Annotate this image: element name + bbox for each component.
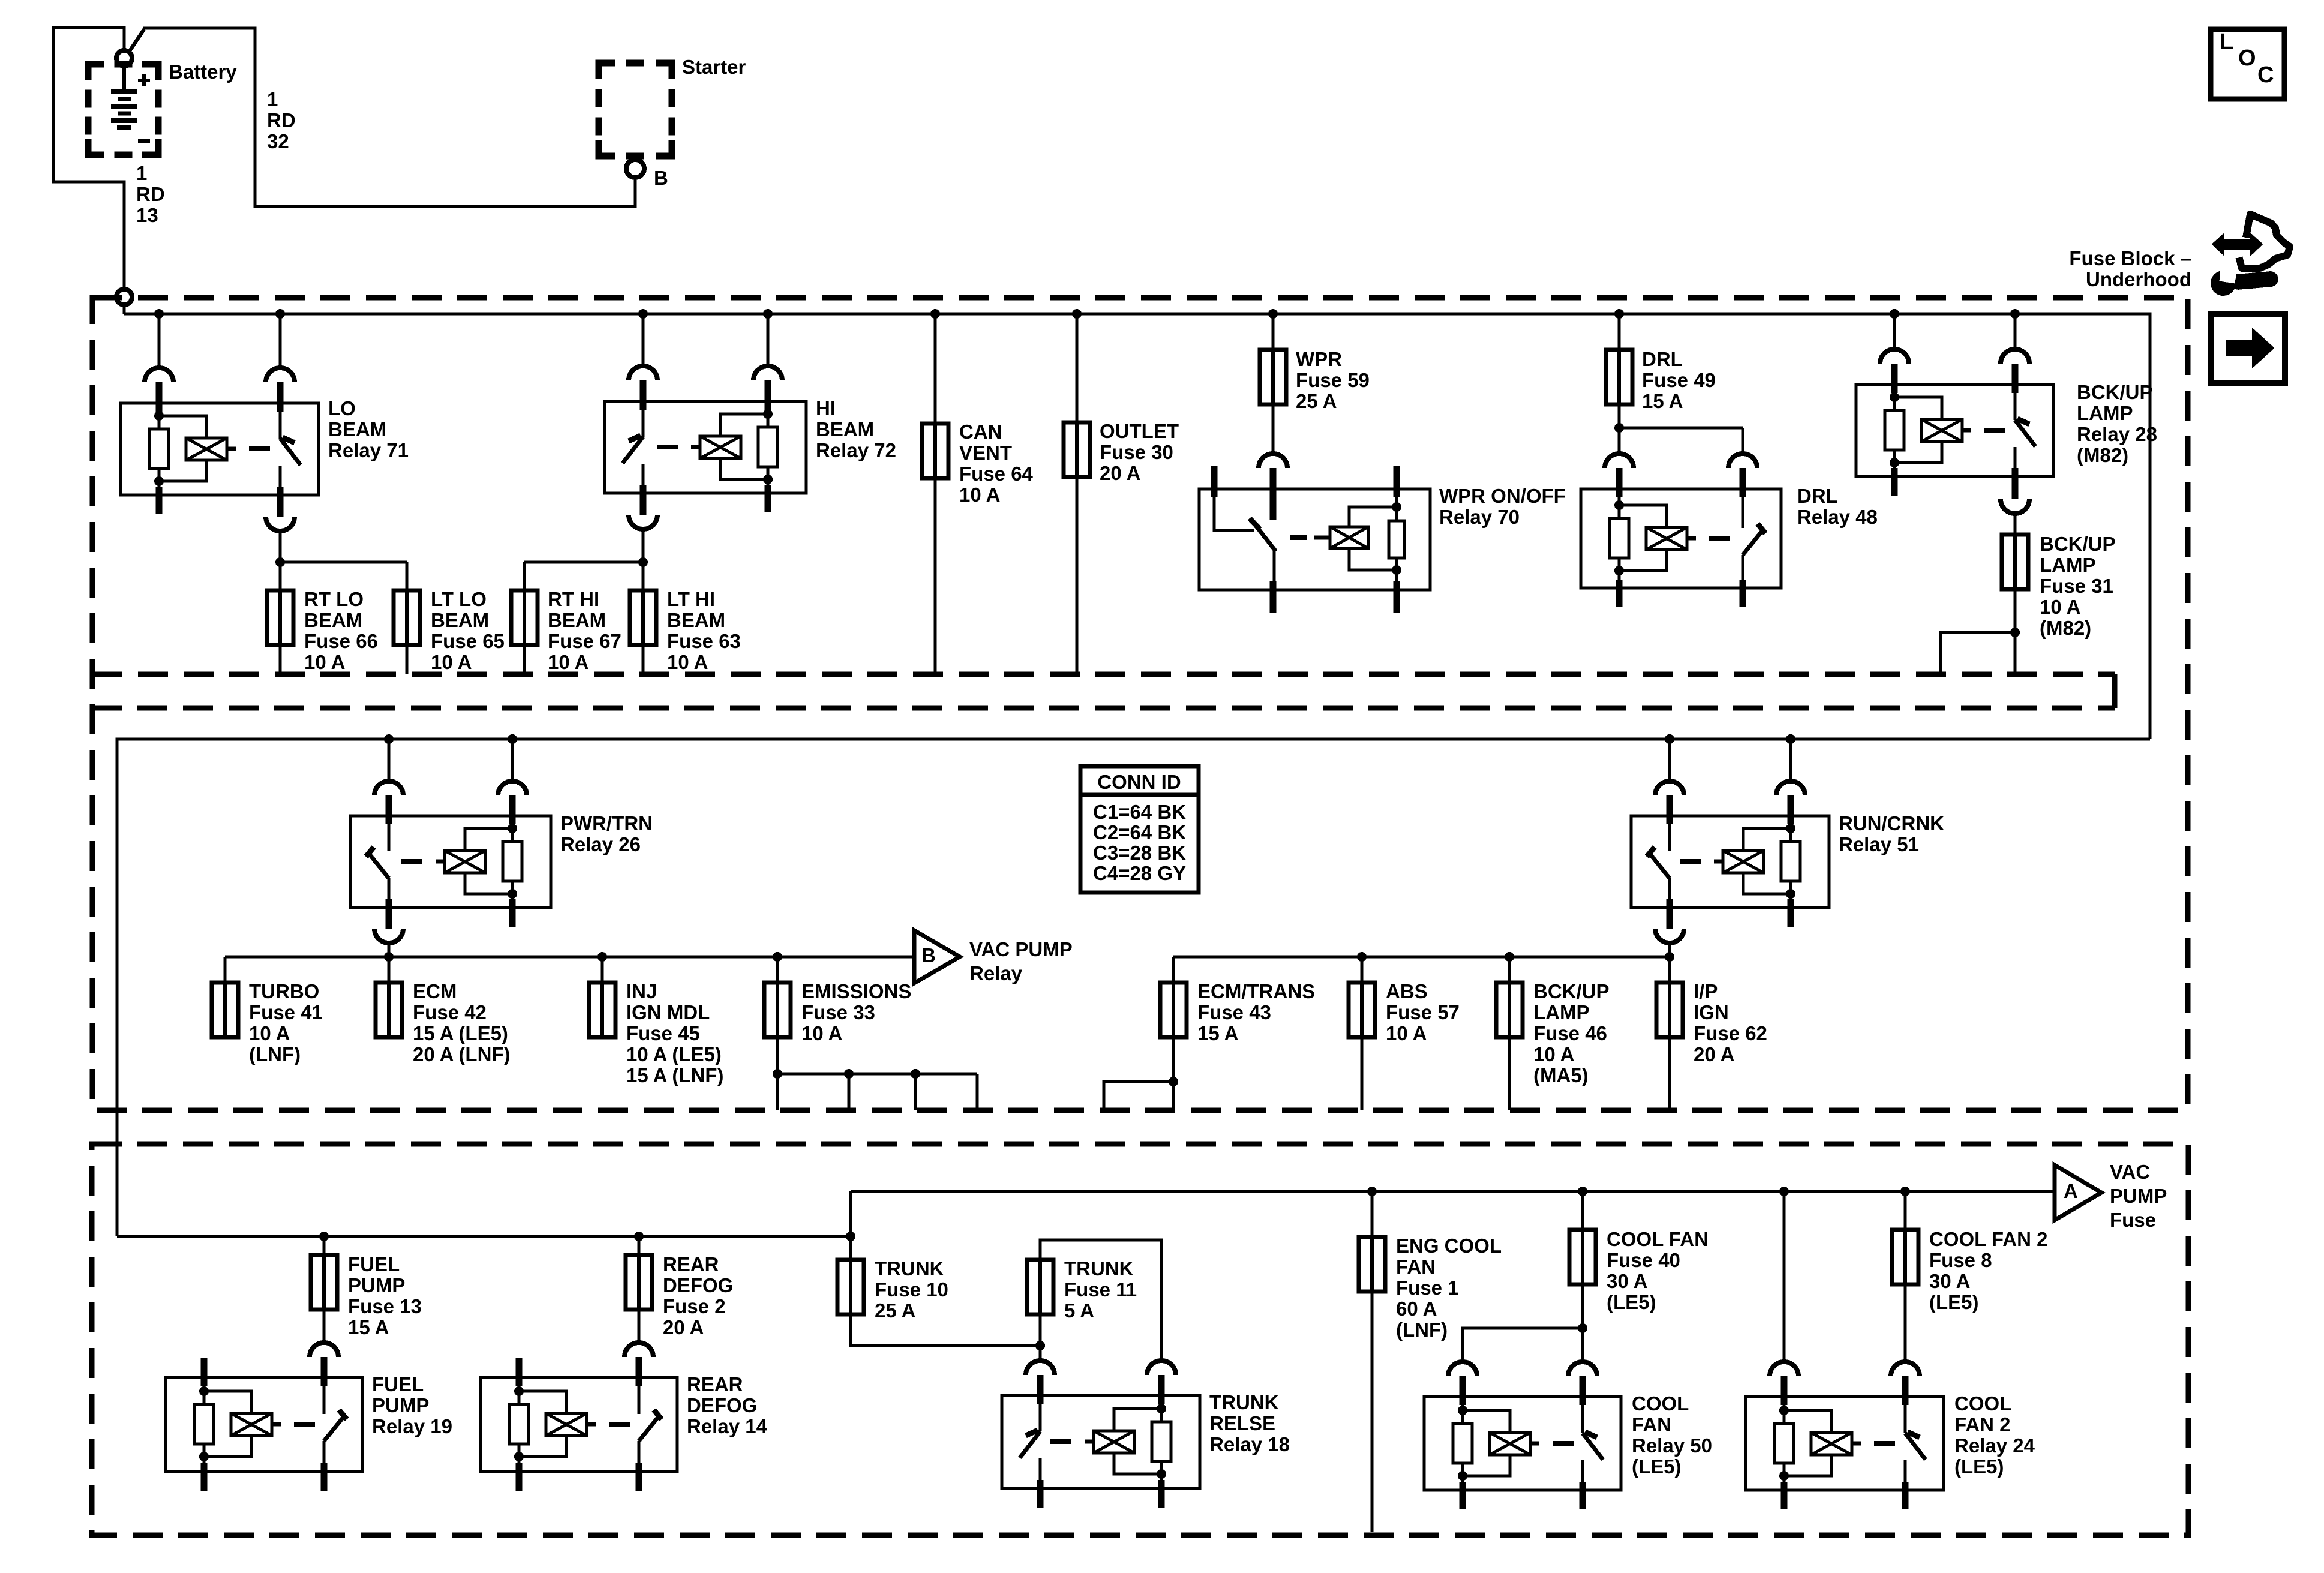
relay REAR DEFOG Relay 14 [481, 1377, 677, 1472]
svg-text:L: L [2220, 29, 2233, 55]
battery Battery dashed box [88, 64, 104, 80]
svg-text:PWR/TRNRelay 26: PWR/TRNRelay 26 [560, 812, 653, 855]
connector HI beam relay switch [629, 366, 657, 380]
triangle reference A VAC PUMP Fuse [2055, 1165, 2101, 1220]
relay TRUNK RELSE Relay 18 [1002, 1395, 1200, 1488]
fuse RT HI BEAM Fuse 67 [511, 590, 538, 645]
fuse TRUNK Fuse 10 [849, 1236, 852, 1260]
wire bus to LO beam relay switch [279, 314, 282, 368]
node bus junction LO beam coil [154, 309, 164, 319]
wire bus to REAR DEFOG fuse [638, 1236, 641, 1255]
region 3 dashed border [92, 1144, 2188, 1535]
connector RUNCRNK relay coil [1776, 781, 1805, 795]
wire bus to PWRTRN relay switch [388, 739, 391, 781]
fuse ECM Fuse 42 [376, 983, 402, 1037]
node bus junction COOL FAN 2 fuse 8 [1900, 1187, 1910, 1196]
node TRUNK junction [1035, 1341, 1045, 1350]
wire REAR DEFOG fuse to relay 14 [638, 1309, 641, 1343]
fuse INJ IGN MDL Fuse 45 [589, 983, 615, 1037]
node bus junction BCKUP coil [1890, 309, 1899, 319]
wire bus to DRL fuse [1618, 314, 1621, 350]
relay LO BEAM Relay 71 [121, 403, 319, 495]
wire diagonal from battery terminal to feed [128, 29, 144, 53]
wire EMISSIONS fuse drop [776, 957, 779, 983]
icon LOC box [2211, 29, 2284, 99]
wire bus to OUTLET fuse [1076, 314, 1079, 422]
node bus junction FUEL PUMP fuse [319, 1232, 329, 1241]
wire LO beam relay output to fuses [279, 531, 282, 562]
node bus junction TRUNK fuse 10 [846, 1232, 855, 1241]
connector WPR relay switch input [1259, 454, 1287, 468]
wire region 3 left bus [117, 1235, 851, 1238]
fuse RT LO BEAM Fuse 66 [267, 590, 293, 645]
connector BCKUP relay switch [2001, 349, 2029, 364]
relay WPR ON/OFF Relay 70 [1199, 489, 1430, 590]
wire fuse 67 output [523, 645, 526, 674]
svg-text:A: A [2064, 1180, 2078, 1202]
fuse DRL Fuse 49 [1606, 350, 1632, 404]
fuse TRUNK Fuse 11 [1027, 1260, 1053, 1314]
CONN ID table box [1080, 766, 1199, 893]
connector TRUNK relay switch [1026, 1361, 1055, 1375]
node bus junction LO beam switch [275, 309, 285, 319]
connector HI beam relay coil [753, 366, 782, 380]
wire EMISSIONS outputs [776, 1037, 779, 1110]
wire sub-bus to ECM/TRANS fuse [1172, 957, 1175, 983]
relay BCK/UP LAMP Relay 28 [1856, 385, 2053, 476]
wire IP IGN fuse output [1668, 1037, 1671, 1110]
fuse block slot upper dashed line [92, 672, 2115, 677]
fuse I/P IGN Fuse 62 [1656, 983, 1683, 1037]
svg-text:Battery: Battery [169, 61, 237, 83]
relay COOL FAN 2 Relay 24 [1746, 1397, 1944, 1490]
fuse LT HI BEAM Fuse 63 [630, 590, 656, 645]
wire region 2 right sub-bus [1173, 956, 1670, 959]
battery minus sign [138, 139, 150, 143]
svg-text:Starter: Starter [682, 56, 746, 78]
wire RUNCRNK output to sub-bus [1668, 943, 1671, 957]
connector DRL relay coil [1605, 454, 1634, 468]
wire bus to CAN VENT fuse [934, 314, 937, 424]
wire COOL FAN fuse tee [1581, 1284, 1584, 1362]
node bus junction PWRTRN switch [384, 734, 394, 744]
wire bus to HI beam relay switch [642, 314, 645, 366]
fuse REAR DEFOG Fuse 2 [626, 1255, 652, 1310]
connector HI beam relay output [640, 492, 647, 515]
relay RUN/CRNK Relay 51 [1631, 816, 1829, 908]
wire ECM/TRANS outputs [1172, 1037, 1175, 1110]
wire BCKUP fuse 46 output [1508, 1037, 1511, 1110]
svg-text:B: B [654, 167, 668, 189]
connector LO beam relay switch [266, 368, 295, 382]
svg-text:C: C [2257, 62, 2274, 88]
wire COOL FAN 2 fuse output [1904, 1284, 1907, 1362]
fuse COOL FAN Fuse 40 [1569, 1230, 1596, 1284]
fuse block slot lower dashed line [92, 706, 2115, 711]
fuse block slot right jog [2112, 674, 2118, 708]
wire TRUNK fuse 11 bridge to relay coil [1040, 1240, 1161, 1361]
wire battery to starter feed 1 RD 32 [143, 28, 635, 206]
fuse block underhood dashed border [92, 298, 2188, 1110]
node bus junction OUTLET [1072, 309, 1082, 319]
wire fuse 66 output [279, 645, 282, 674]
node bus junction REAR DEFOG fuse [634, 1232, 644, 1241]
wire DRL fuse to relay 48 [1618, 404, 1621, 454]
wire IP IGN fuse drop [1668, 957, 1671, 983]
node bus junction COOL FAN fuse 40 [1578, 1187, 1587, 1196]
connector LO beam relay output [277, 494, 284, 517]
relay HI BEAM Relay 72 [605, 401, 806, 493]
wire INJ fuse drop [601, 957, 604, 983]
wire BCKUP fuse 46 drop [1508, 957, 1511, 983]
node bus junction BCKUP switch [2010, 309, 2020, 319]
node bus junction RUNCRNK switch [1665, 734, 1674, 744]
node bus junction PWRTRN coil [508, 734, 517, 744]
battery plus sign [142, 74, 146, 86]
wire sub-bus to TURBO fuse [224, 957, 227, 983]
wire CAN VENT fuse output [934, 478, 937, 674]
wire main bus region 1 [124, 314, 2150, 739]
wire bus to WPR fuse [1272, 314, 1275, 350]
wire bus to COOL FAN fuse 40 [1581, 1191, 1584, 1230]
wire bus to RUNCRNK relay coil [1789, 739, 1792, 781]
connector RUNCRNK relay output [1667, 906, 1673, 929]
node sub-bus junction BCKUP fuse 46 [1505, 952, 1514, 962]
fuse BCK/UP LAMP Fuse 31 [2002, 535, 2028, 589]
relay PWR/TRN Relay 26 [350, 816, 551, 908]
node bus junction WPR [1268, 309, 1278, 319]
fuse CAN VENT Fuse 64 [922, 424, 948, 478]
wire PWRTRN output to sub-bus [388, 943, 391, 957]
node bus junction DRL [1614, 309, 1624, 319]
wire region 3 link up [849, 1191, 852, 1236]
connector BCKUP relay coil [1880, 349, 1909, 364]
connector BCKUP relay output [2012, 476, 2019, 499]
node bus junction CAN VENT [930, 309, 940, 319]
wire bus to ENG COOL FAN fuse [1371, 1191, 1374, 1237]
wire WPR fuse to relay 70 [1272, 404, 1275, 454]
svg-text:CONN ID: CONN ID [1097, 771, 1181, 793]
fuse BCK/UP LAMP Fuse 46 [1496, 983, 1523, 1037]
connector PWRTRN relay output [386, 906, 392, 929]
node sub-bus junction EMISSIONS [773, 952, 782, 962]
connector PWRTRN relay coil [498, 781, 527, 795]
connector PWRTRN relay switch [374, 781, 403, 795]
fuse FUEL PUMP Fuse 13 [311, 1255, 337, 1310]
wire bus to COOL FAN 2 relay coil [1783, 1191, 1786, 1362]
node bus junction RUNCRNK coil [1786, 734, 1795, 744]
wire main bus region 2 [117, 739, 2150, 1236]
connector DRL relay switch [1728, 454, 1757, 468]
wire ECM fuse drop [388, 957, 391, 983]
wire bus to BCKUP relay coil [1893, 314, 1896, 349]
node bus junction HI beam switch [638, 309, 648, 319]
connector RUNCRNK relay switch [1655, 781, 1684, 795]
wire fuse 31 output [2014, 589, 2017, 674]
svg-text:Fuse Block –Underhood: Fuse Block –Underhood [2069, 247, 2191, 290]
relay COOL FAN Relay 50 [1424, 1397, 1621, 1490]
connector TRUNK relay coil [1147, 1361, 1176, 1375]
connector COOL FAN relay switch [1568, 1362, 1597, 1376]
connector COOL FAN 2 relay coil [1770, 1362, 1798, 1376]
wire fuse 63 output [642, 645, 645, 674]
relay FUEL PUMP Relay 19 [166, 1377, 362, 1472]
starter Starter dashed box [599, 63, 615, 79]
battery positive terminal circle [116, 50, 132, 66]
connector REAR DEFOG relay switch [624, 1343, 653, 1357]
node bus junction COOL FAN 2 relay coil [1779, 1187, 1789, 1196]
fuse ABS Fuse 57 [1349, 983, 1375, 1037]
wire fuse 65 output [406, 645, 409, 674]
node sub-bus junction PWRTRN output [384, 952, 394, 962]
wire ABS output [1361, 1037, 1364, 1110]
connector LO beam relay coil [145, 368, 173, 382]
wire bus to RUNCRNK relay switch [1668, 739, 1671, 781]
battery negative-path terminal circle [116, 289, 132, 305]
svg-text:C1=64 BKC2=64 BKC3=28 BKC4=28: C1=64 BKC2=64 BKC3=28 BKC4=28 GY [1093, 801, 1186, 884]
fuse WPR Fuse 59 [1260, 350, 1286, 404]
fuse TURBO Fuse 41 [212, 983, 238, 1037]
node bus junction HI beam coil [763, 309, 773, 319]
icon forward arrow box [2211, 314, 2285, 383]
wire BCKUP relay output to fuse 31 [2014, 514, 2017, 535]
starter terminal B circle [626, 160, 644, 178]
svg-text:B: B [921, 944, 936, 966]
node sub-bus junction ABS [1357, 952, 1367, 962]
icon direction arrows and wrench [2212, 234, 2262, 255]
wire bus to HI beam relay coil [767, 314, 770, 366]
fuse OUTLET Fuse 30 [1064, 422, 1090, 477]
wire battery loop left [53, 28, 124, 289]
fuse ENG COOL FAN Fuse 1 [1359, 1237, 1385, 1292]
wire OUTLET fuse output [1076, 477, 1079, 674]
wire bus to COOL FAN 2 fuse 8 [1904, 1191, 1907, 1230]
wire ABS fuse drop [1361, 957, 1364, 983]
fuse COOL FAN 2 Fuse 8 [1892, 1230, 1918, 1284]
svg-text:O: O [2238, 46, 2256, 71]
wire bus to LO beam relay coil [158, 314, 161, 368]
wire battery down feed 1 RD 13 [123, 305, 126, 314]
wire TRUNK fuse 11 output [1039, 1314, 1042, 1346]
wire region 2 left sub-bus [225, 956, 914, 959]
wire TRUNK fuse 10 output [851, 1314, 1040, 1346]
triangle reference B VAC PUMP Relay [914, 930, 960, 983]
battery symbol [122, 66, 126, 91]
fuse EMISSIONS Fuse 33 [764, 983, 791, 1037]
node sub-bus junction IP IGN [1665, 952, 1674, 962]
wire ENG COOL FAN fuse output [1371, 1291, 1374, 1532]
fuse ECM/TRANS Fuse 43 [1160, 983, 1187, 1037]
node sub-bus junction INJ [597, 952, 607, 962]
wire region 3 right bus [851, 1190, 2055, 1193]
wire bus to BCKUP relay switch [2014, 314, 2017, 349]
wire bus to FUEL PUMP fuse [323, 1236, 326, 1255]
connector COOL FAN 2 relay switch [1891, 1362, 1920, 1376]
wire HI beam relay output to fuses [642, 529, 645, 562]
wire bus to PWRTRN relay coil [511, 739, 514, 781]
fuse LT LO BEAM Fuse 65 [394, 590, 420, 645]
connector COOL FAN relay coil [1448, 1362, 1477, 1376]
node bus junction ENG COOL FAN [1367, 1187, 1377, 1196]
connector FUEL PUMP relay switch [310, 1343, 338, 1357]
wire FUEL PUMP fuse to relay 19 [323, 1309, 326, 1343]
relay DRL Relay 48 [1581, 489, 1781, 588]
